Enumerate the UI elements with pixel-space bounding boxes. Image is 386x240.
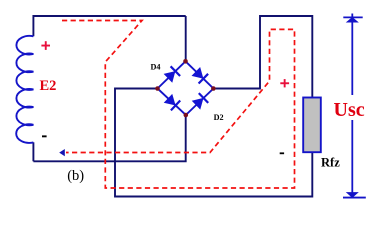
node top xyxy=(183,59,188,64)
svg-text:D4: D4 xyxy=(151,62,161,71)
current path arrowhead (blue, pointing left) xyxy=(59,149,65,156)
label - (right, black) xyxy=(280,152,284,154)
dimension arrow Usc (vertical with end ticks) xyxy=(343,14,366,198)
node right xyxy=(211,86,216,91)
svg-text:D2: D2 xyxy=(214,113,224,122)
diode D2 bottom-right xyxy=(193,93,209,109)
node bottom xyxy=(184,113,189,118)
svg-text:E2: E2 xyxy=(40,78,57,94)
svg-text:Rfz: Rfz xyxy=(321,156,340,170)
wire right node up and over to Rfz top xyxy=(213,16,312,98)
node left xyxy=(155,86,160,91)
diode D4 top-left xyxy=(165,66,181,82)
svg-text:(b): (b) xyxy=(67,168,84,184)
diode D3 bottom-left xyxy=(165,95,181,111)
wire bridge top stub xyxy=(185,16,187,61)
label + (E2 top) xyxy=(41,41,50,50)
current path dashed: top run from E2 plus xyxy=(62,21,295,189)
label - (E2 bottom) xyxy=(42,135,47,137)
wire bottom from E2 minus to bridge bottom xyxy=(33,115,185,161)
label Usc (on white backing) xyxy=(332,95,367,120)
bridge diamond edges xyxy=(158,61,214,115)
wire top from E2 plus to bridge top xyxy=(33,16,185,36)
transformer winding E2 (coil loops) xyxy=(16,36,33,143)
diode D1 top-right xyxy=(193,68,209,84)
wire left node to lower-left corner and bottom rail to Rfz bottom xyxy=(115,89,312,197)
label + (right, red) xyxy=(280,79,289,87)
wire E2 bottom stub xyxy=(32,142,34,161)
svg-text:Usc: Usc xyxy=(334,99,365,121)
resistor Rfz xyxy=(303,98,321,153)
